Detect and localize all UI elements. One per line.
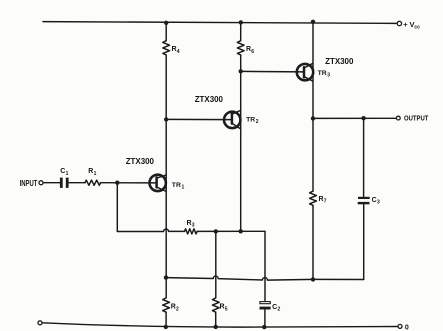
svg-text:TR: TR (246, 116, 255, 123)
svg-text:C: C (272, 304, 277, 311)
svg-text:INPUT: INPUT (20, 179, 38, 188)
svg-text:0: 0 (405, 324, 409, 331)
svg-text:R: R (172, 46, 177, 53)
svg-text:ZTX300: ZTX300 (195, 95, 224, 104)
svg-text:7: 7 (324, 199, 327, 205)
svg-text:1: 1 (182, 185, 185, 191)
svg-text:+: + (403, 20, 408, 29)
svg-text:1: 1 (66, 171, 69, 177)
svg-text:4: 4 (177, 49, 180, 55)
svg-text:2: 2 (176, 306, 179, 312)
svg-text:3: 3 (327, 73, 330, 79)
svg-text:R: R (187, 220, 192, 227)
svg-text:6: 6 (251, 49, 254, 55)
svg-text:TR: TR (318, 70, 327, 77)
svg-text:cc: cc (414, 24, 420, 30)
svg-text:R: R (88, 168, 93, 175)
svg-text:R: R (220, 304, 225, 311)
svg-text:ZTX300: ZTX300 (325, 57, 354, 66)
svg-text:R: R (319, 196, 324, 203)
svg-text:2: 2 (278, 307, 281, 313)
svg-text:R: R (246, 46, 251, 53)
svg-text:TR: TR (172, 182, 181, 189)
svg-text:2: 2 (256, 119, 259, 125)
svg-text:1: 1 (94, 171, 97, 177)
svg-text:C: C (60, 168, 65, 175)
svg-text:3: 3 (377, 200, 380, 206)
svg-text:5: 5 (225, 306, 228, 312)
svg-text:ZTX300: ZTX300 (126, 157, 155, 166)
svg-text:OUTPUT: OUTPUT (404, 116, 429, 123)
svg-text:R: R (171, 304, 176, 311)
svg-text:C: C (372, 197, 377, 204)
svg-text:3: 3 (192, 223, 195, 229)
